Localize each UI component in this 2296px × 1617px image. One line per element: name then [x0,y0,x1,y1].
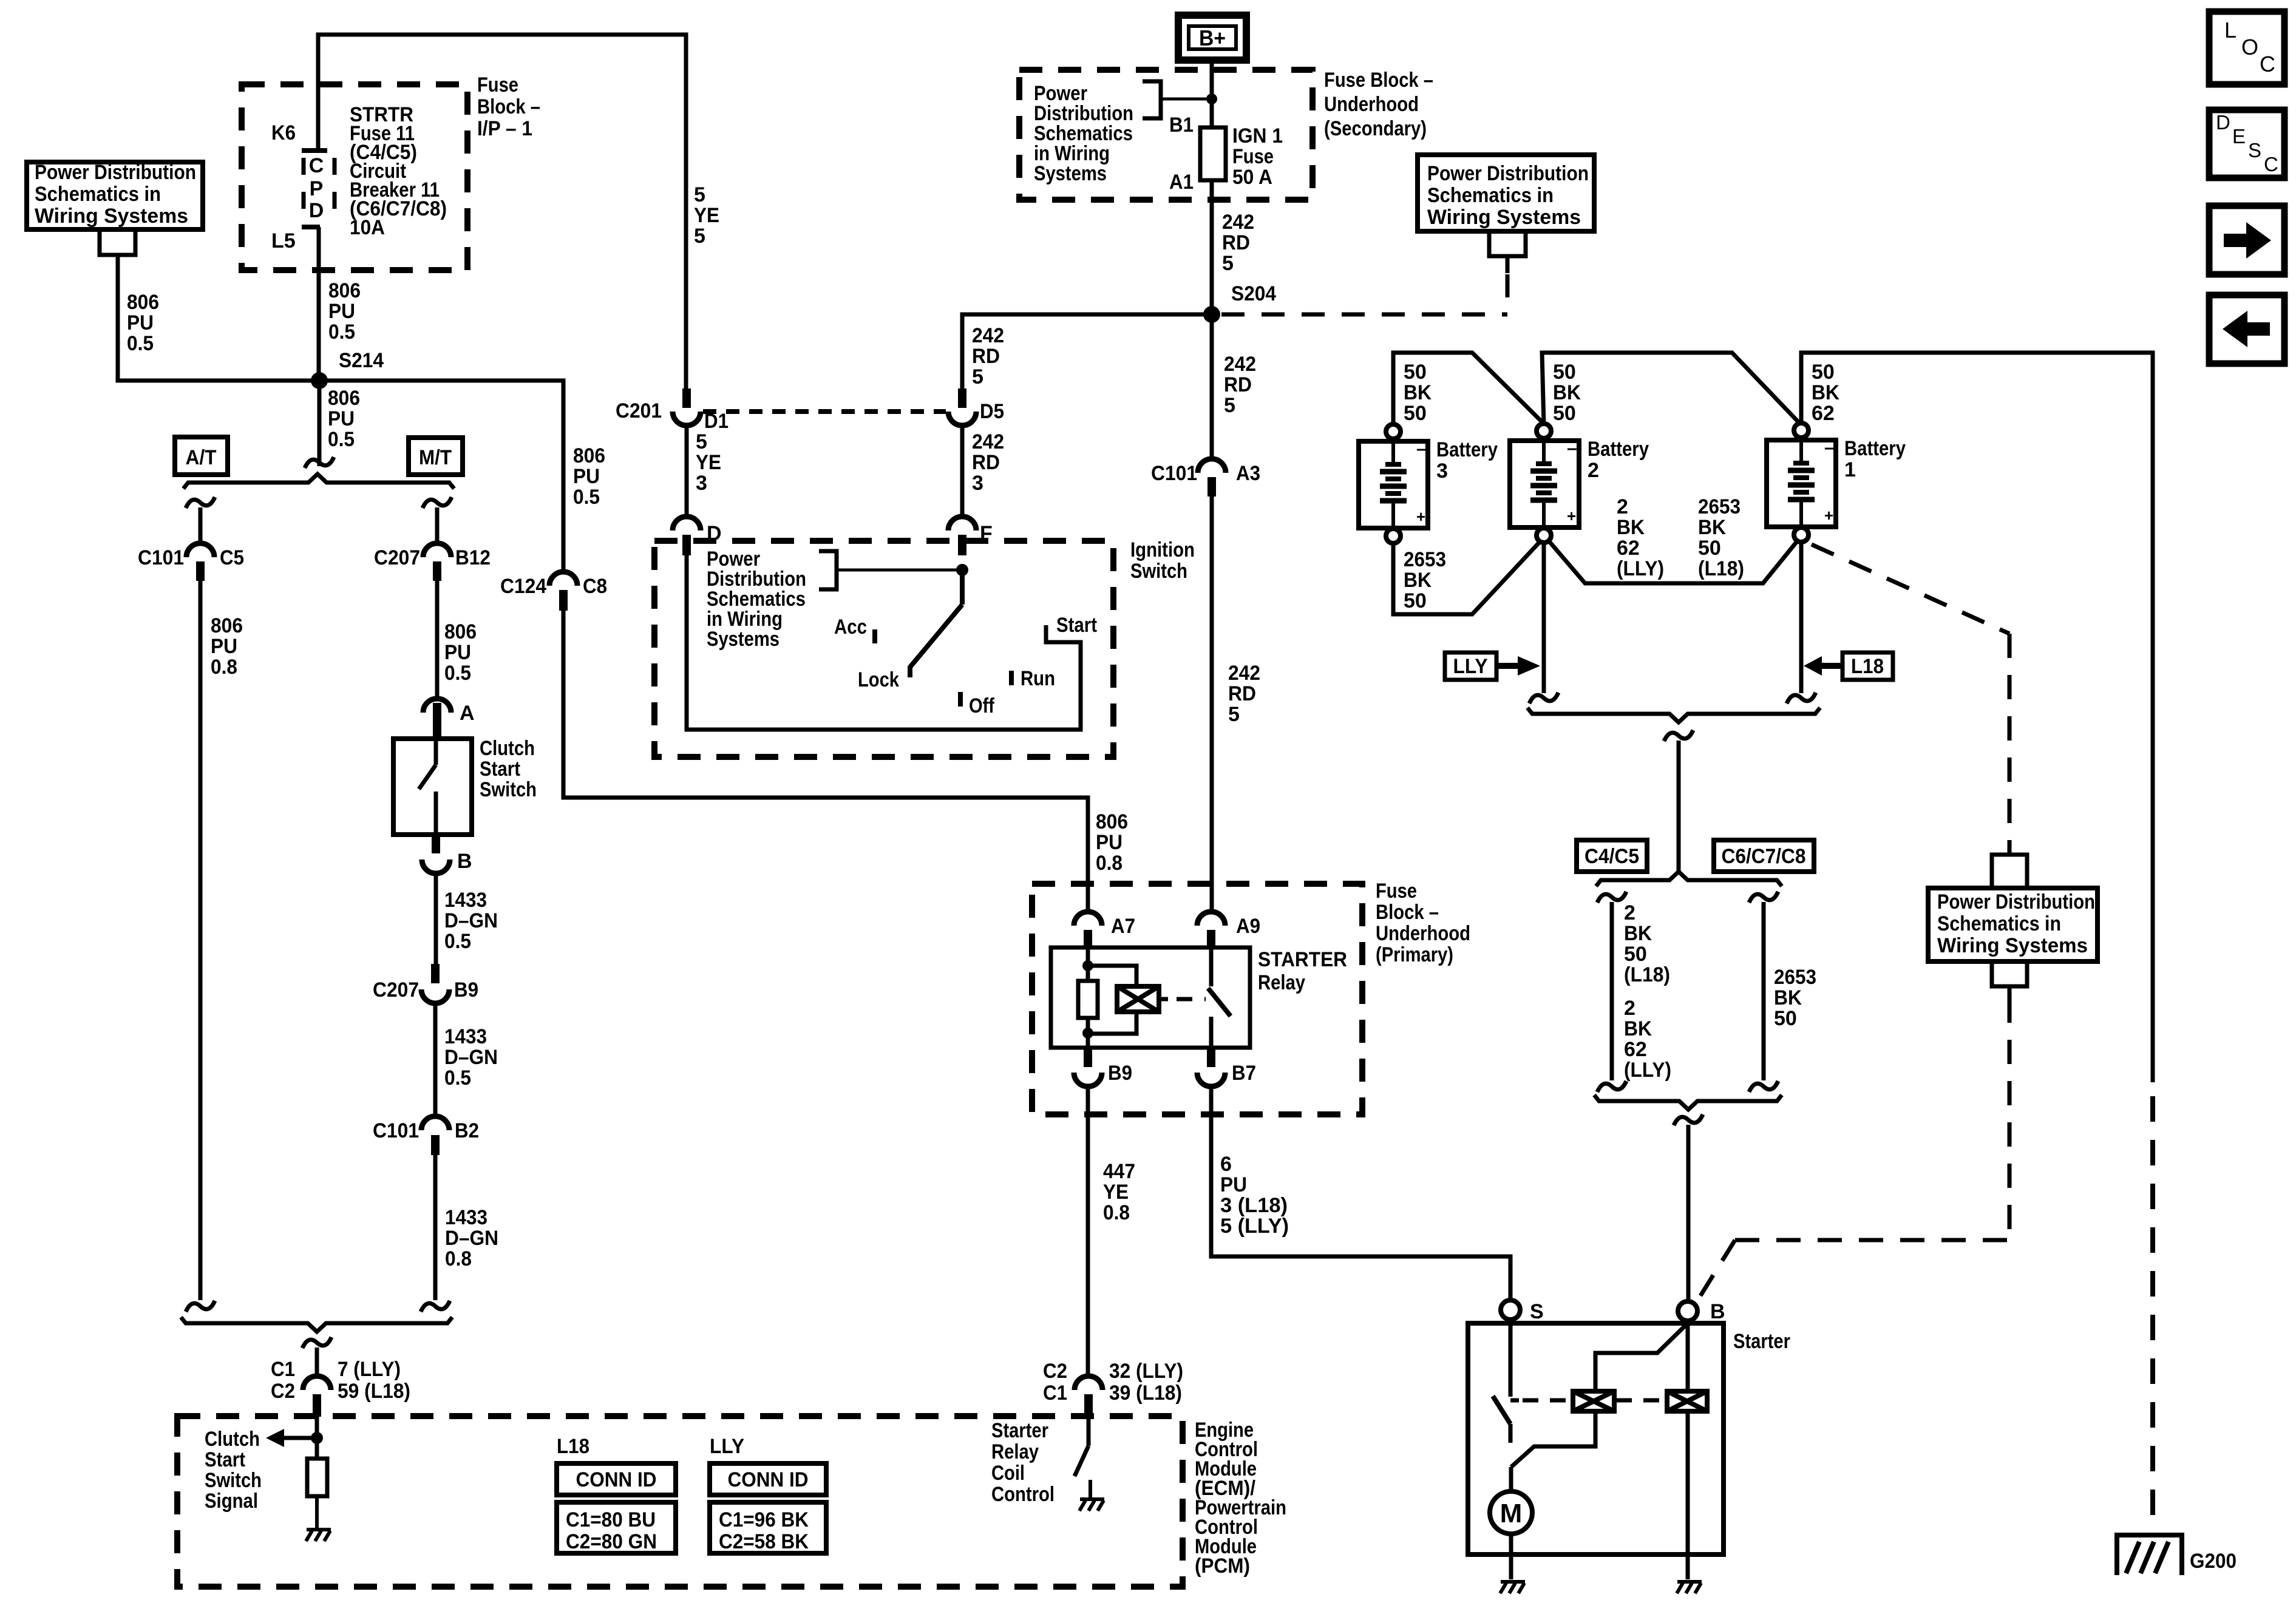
LOC icon box [2209,12,2284,84]
svg-text:Wiring Systems: Wiring Systems [35,205,188,228]
svg-text:2: 2 [1617,495,1628,518]
svg-text:C5: C5 [220,546,244,569]
contact Off [958,692,963,707]
svg-text:B1: B1 [1169,114,1194,137]
svg-text:Fuse: Fuse [477,73,518,97]
wire A3 to starter relay A9 [1210,497,1214,912]
svg-text:BK: BK [1774,986,1802,1009]
svg-text:Start: Start [480,758,520,781]
svg-text:+: + [1567,507,1576,525]
starter relay resistor [1078,981,1098,1018]
svg-text:P: P [310,177,324,200]
svg-text:YE: YE [1103,1181,1129,1204]
wire battery 2 positive to battery 1 [1549,541,1797,583]
wire brace to C4/C5 C6/C7/C8 brace [1664,730,1693,741]
battery 3 terminal bottom [1386,529,1401,543]
svg-text:Acc: Acc [834,615,867,639]
svg-text:B: B [1710,1300,1725,1323]
brace joining to starter B feed [1594,1095,1782,1110]
svg-text:Underhood: Underhood [1376,922,1470,945]
circuit breaker STRTR Fuse 11 [302,148,327,153]
svg-text:(PCM): (PCM) [1195,1554,1250,1578]
svg-text:Power Distribution: Power Distribution [35,161,196,184]
svg-text:B: B [457,850,472,873]
wire D1 to D [685,425,689,517]
connector B clutch start switch [432,835,440,853]
svg-text:LLY: LLY [1453,655,1488,678]
svg-text:CONN ID: CONN ID [728,1468,809,1491]
L18 tag box [1843,653,1893,680]
svg-text:806: 806 [573,444,605,467]
svg-text:B7: B7 [1232,1062,1256,1085]
svg-text:7 (LLY): 7 (LLY) [338,1358,401,1381]
svg-text:Battery: Battery [1436,438,1498,461]
svg-text:L: L [2224,18,2237,42]
svg-text:C2: C2 [271,1380,295,1403]
svg-text:LLY: LLY [710,1435,744,1458]
connector C1 C2 to ECM [303,1376,331,1390]
wire battery 2 positive to LLY node [1542,543,1546,693]
splice S204 [1203,306,1220,323]
arrow left icon box [2209,295,2284,364]
LLY arrow [1496,663,1518,669]
svg-text:Relay: Relay [991,1440,1039,1463]
battery 1 terminal bottom [1794,527,1809,542]
svg-text:B+: B+ [1199,25,1226,50]
svg-text:RD: RD [1224,373,1252,396]
ignition switch rotor [956,564,968,576]
svg-text:A1: A1 [1169,171,1194,194]
svg-text:BK: BK [1698,516,1726,539]
svg-text:3: 3 [696,472,707,495]
connector C201 D1 [682,388,691,408]
wire B to C207 B9 [434,873,438,964]
svg-text:+: + [1824,506,1833,524]
svg-text:BK: BK [1624,922,1652,945]
svg-text:D–GN: D–GN [445,1227,498,1250]
brace joining A/T and M/T branches at ECM input [181,1317,452,1332]
svg-text:806: 806 [328,387,360,410]
wire breaker to S214 [317,227,321,381]
wire battery 3 positive [1393,541,1540,614]
connector C101 A3 [1198,459,1226,473]
LLY CONN ID table [710,1463,826,1495]
svg-text:0.5: 0.5 [444,662,471,685]
svg-text:B12: B12 [455,546,491,569]
svg-text:3: 3 [1436,459,1448,483]
svg-text:50: 50 [1698,537,1721,560]
connector F ignition switch [948,517,976,531]
power distribution schematics box (top left) [27,162,203,229]
svg-text:–: – [1416,439,1427,459]
svg-text:Switch: Switch [1130,560,1187,583]
connector B7 [1207,1048,1215,1067]
svg-text:Clutch: Clutch [205,1428,260,1451]
starter relay coil circuit [1086,947,1090,981]
svg-text:M/T: M/T [419,446,452,469]
svg-text:50 A: 50 A [1232,166,1272,189]
svg-text:D: D [2216,111,2230,134]
svg-text:242: 242 [1228,662,1260,685]
starter solenoid dashes [1523,1398,1571,1403]
wire S204 left to ignition switch D5 [962,314,1212,391]
svg-text:C1=96 BK: C1=96 BK [719,1508,809,1531]
svg-text:Battery: Battery [1844,437,1906,460]
svg-text:O: O [2241,35,2258,59]
svg-text:S214: S214 [339,349,384,372]
svg-text:Schematics in: Schematics in [35,183,161,206]
svg-text:Off: Off [969,694,995,717]
svg-text:2: 2 [1624,901,1635,924]
svg-text:Coil: Coil [991,1462,1025,1485]
svg-text:Schematics in: Schematics in [1427,184,1554,207]
left branch wire 2 BK [1597,892,1626,903]
wire B7 to starter S [1211,1086,1510,1300]
svg-text:C1: C1 [1043,1381,1067,1405]
svg-text:2653: 2653 [1774,966,1816,989]
M/T box [409,438,463,475]
DESC icon box [2209,110,2284,178]
svg-text:S: S [2248,139,2261,161]
svg-text:1433: 1433 [445,1206,487,1229]
svg-text:C101: C101 [1151,462,1197,485]
svg-text:Systems: Systems [707,628,779,651]
svg-text:C6/C7/C8: C6/C7/C8 [1722,845,1806,868]
svg-text:B9: B9 [1108,1062,1132,1085]
svg-text:1433: 1433 [444,889,487,912]
connector C207 B12 [423,543,451,557]
svg-text:6: 6 [1220,1153,1232,1176]
svg-text:242: 242 [972,430,1004,453]
svg-text:50: 50 [1624,943,1647,966]
wire IGN1 fuse to S204 [1210,180,1214,314]
svg-text:0.5: 0.5 [444,1066,471,1090]
dashed wire PD box to starter B [2008,998,2012,1240]
svg-text:C: C [2260,52,2275,76]
svg-text:5 (LLY): 5 (LLY) [1220,1215,1289,1238]
svg-text:BK: BK [1553,381,1581,404]
connector B9 [1084,1048,1092,1067]
A/T box [175,437,228,475]
svg-text:806: 806 [444,620,477,643]
wire B+ to IGN1 fuse [1210,60,1214,127]
svg-text:BK: BK [1404,569,1432,592]
svg-text:K6: K6 [271,121,296,144]
svg-text:C: C [2264,153,2278,175]
svg-text:Switch: Switch [480,778,537,801]
svg-text:C: C [309,154,324,177]
LLY tag box [1445,653,1496,680]
svg-text:D–GN: D–GN [444,909,498,932]
svg-text:5: 5 [694,225,705,248]
starter solenoid coil 1 [1573,1391,1614,1411]
svg-text:Power Distribution: Power Distribution [1427,162,1589,185]
connector C201 D5 [958,388,966,408]
contact Run [1009,671,1014,685]
svg-text:59 (L18): 59 (L18) [338,1380,410,1403]
svg-text:C101: C101 [373,1119,419,1142]
wire S214 right to C124 branch corner [319,381,563,572]
svg-text:–: – [1567,438,1577,458]
starter relay coil [1088,966,1136,986]
starter switch linkage [1511,1412,1595,1467]
clutch start switch contacts [434,739,438,765]
svg-text:B2: B2 [455,1119,479,1142]
svg-text:L18: L18 [557,1435,589,1458]
svg-text:1433: 1433 [444,1025,487,1048]
svg-text:62: 62 [1617,537,1640,560]
svg-text:Signal: Signal [205,1490,258,1513]
svg-text:62: 62 [1812,402,1835,425]
svg-text:PU: PU [127,311,154,334]
svg-text:YE: YE [694,204,719,227]
svg-text:D: D [309,199,324,222]
C6/C7/C8 tag box [1714,840,1814,872]
wire brace to starter B terminal [1674,1114,1703,1125]
svg-text:A/T: A/T [186,446,217,469]
connector A clutch start switch [423,699,451,713]
connector C201 dashed body [703,409,946,414]
svg-text:Starter: Starter [1733,1330,1790,1353]
B+ terminal [1178,15,1246,60]
svg-text:YE: YE [696,451,721,474]
svg-text:Block –: Block – [1376,901,1439,924]
brace joining LLY and L18 battery feeds [1527,708,1820,722]
L18 arrow [1822,663,1843,669]
brace splitting to A/T and M/T branches [183,474,454,489]
svg-text:RD: RD [972,345,1000,368]
wire PD box to S214 [118,267,319,381]
brace splitting to C4/C5 and C6/C7/C8 [1596,872,1782,886]
battery 2 terminal top [1537,424,1551,438]
svg-text:242: 242 [1224,353,1256,376]
wire C8 to starter relay A7 [563,611,1088,912]
svg-text:5: 5 [1224,394,1235,417]
svg-text:447: 447 [1103,1160,1135,1183]
svg-text:BK: BK [1624,1017,1652,1040]
svg-text:BK: BK [1404,381,1432,404]
wire battery 1 top feed [1801,353,2153,1082]
ground starter B [1677,1582,1702,1593]
svg-text:C4/C5: C4/C5 [1584,845,1639,868]
svg-text:0.5: 0.5 [444,930,471,953]
ignition switch output wire to start contact [687,555,1081,730]
svg-text:5: 5 [972,365,983,388]
connector C101 B2 [421,1116,449,1130]
svg-text:Ignition: Ignition [1130,538,1195,561]
svg-text:3: 3 [972,472,983,495]
connector A9 [1197,912,1225,926]
svg-text:0.8: 0.8 [1103,1201,1130,1224]
wire S214 down to A/T M/T brace [318,381,322,466]
bracket in ignition switch [819,551,837,589]
svg-text:STARTER: STARTER [1258,948,1347,971]
starter box [1468,1323,1724,1554]
contact Acc [872,629,877,643]
right branch wire 2653 BK 50 [1749,892,1778,903]
svg-text:50: 50 [1404,402,1427,425]
svg-text:Fuse: Fuse [1232,145,1274,168]
svg-text:PU: PU [444,641,471,664]
svg-text:Schematics in: Schematics in [1937,912,2061,935]
svg-text:PU: PU [1096,831,1123,854]
svg-text:0.8: 0.8 [445,1247,472,1270]
svg-text:2653: 2653 [1404,548,1446,571]
splice S214 [311,372,328,389]
svg-text:5: 5 [694,183,705,206]
arrow right icon box [2209,206,2284,274]
starter terminal S [1501,1300,1520,1320]
starter solenoid switch [1509,1320,1513,1397]
svg-text:BK: BK [1812,381,1839,404]
svg-text:C2: C2 [1043,1360,1067,1383]
fuse block underhood secondary dashed box [1019,70,1313,200]
svg-text:A9: A9 [1236,915,1260,938]
C4/C5 tag box [1577,840,1647,872]
svg-text:G200: G200 [2190,1550,2237,1573]
svg-text:806: 806 [127,291,159,314]
battery 2 terminal bottom [1537,528,1551,543]
clutch start switch signal node [315,1417,319,1459]
svg-text:C101: C101 [138,546,184,569]
svg-text:5: 5 [696,430,707,453]
bracket below PD box [100,229,135,255]
L18 CONN ID table [557,1463,676,1495]
svg-text:Clutch: Clutch [480,737,535,760]
svg-text:RD: RD [972,451,1000,474]
svg-text:C1: C1 [271,1358,295,1381]
bracket below PD box right [1489,231,1526,256]
wire resistor to ground [315,1496,319,1530]
bracket to power distribution schematics [1143,81,1161,118]
svg-text:50: 50 [1553,361,1576,384]
wire S204 down to C101 A3 [1210,314,1214,459]
bracket above PD box right lower [2008,844,2012,855]
svg-text:50: 50 [1404,361,1427,384]
connector C207 B9 [431,964,440,983]
power distribution schematics box (top right) [1418,155,1594,231]
svg-text:C124: C124 [500,575,546,598]
battery 2 [1510,441,1579,527]
starter relay box [1051,947,1250,1048]
svg-text:A3: A3 [1236,462,1260,485]
wire B9 to C101 B2 [433,1003,438,1116]
svg-text:I/P – 1: I/P – 1 [477,117,532,140]
starter B to ground [1686,1411,1690,1579]
clutch start switch box [393,739,472,835]
svg-text:Block –: Block – [477,95,540,118]
svg-text:Run: Run [1021,667,1055,690]
wire A/T branch down [199,581,203,1300]
A/T branch wire to C101 C5 [186,497,215,508]
svg-text:Underhood: Underhood [1324,93,1419,116]
battery 1 terminal top [1794,423,1809,438]
svg-text:2: 2 [1588,459,1599,482]
svg-text:10A: 10A [350,216,385,239]
resistor in ECM [307,1459,327,1496]
svg-text:B9: B9 [454,978,478,1002]
svg-text:39 (L18): 39 (L18) [1109,1381,1182,1405]
bracket below PD box right lower [1992,961,2027,986]
svg-text:S: S [1530,1300,1544,1323]
wire B2 down to bottom brace [433,1155,438,1300]
svg-text:242: 242 [972,324,1004,347]
svg-text:Power Distribution: Power Distribution [1937,890,2095,914]
svg-text:M: M [1500,1499,1523,1528]
connector A7 [1074,912,1102,926]
svg-text:(Primary): (Primary) [1376,943,1453,966]
svg-text:Fuse Block –: Fuse Block – [1324,69,1433,92]
ECM PCM dashed box [177,1416,1183,1587]
svg-text:0.5: 0.5 [328,428,355,451]
ground starter relay coil control [1079,1499,1104,1511]
svg-text:50: 50 [1774,1007,1797,1030]
svg-text:C2=80 GN: C2=80 GN [566,1530,657,1553]
ground starter motor [1500,1582,1525,1593]
svg-text:A7: A7 [1111,915,1135,938]
svg-text:Control: Control [991,1483,1055,1506]
svg-text:806: 806 [211,614,243,637]
wire battery 2 top feed [1542,353,1800,425]
svg-text:2: 2 [1624,997,1635,1020]
svg-text:Switch: Switch [205,1469,262,1492]
wire brace to C1 C2 connector [302,1337,331,1348]
svg-text:L18: L18 [1851,655,1884,678]
starter B internal feed [1686,1321,1690,1391]
svg-text:1: 1 [1844,458,1856,481]
svg-text:PU: PU [211,635,237,658]
fuse block underhood primary dashed box [1032,884,1362,1114]
svg-text:Starter: Starter [991,1419,1048,1442]
svg-text:A: A [460,702,475,725]
dashed ground wire to G200 [2150,1096,2155,1532]
dashed link S204 to power distribution [1221,313,1507,317]
battery 3 terminal top [1386,424,1401,439]
svg-text:3 (L18): 3 (L18) [1220,1194,1288,1217]
ground ECM clutch signal [306,1530,331,1541]
power distribution schematics box (right) [1928,888,2097,961]
svg-text:50: 50 [1404,589,1427,612]
svg-text:0.8: 0.8 [211,656,237,679]
battery 3 [1359,441,1428,528]
svg-text:806: 806 [328,279,361,302]
svg-text:50: 50 [1553,402,1576,425]
ignition switch dashed box [654,541,1113,757]
svg-text:PU: PU [328,300,355,323]
svg-text:(LLY): (LLY) [1617,557,1664,580]
wire B9 to ECM C2 C1 [1086,1086,1090,1376]
svg-text:(L18): (L18) [1624,963,1670,986]
svg-text:PU: PU [573,465,600,488]
M/T branch wire to C207 B12 [423,497,452,508]
starter solenoid coil 2 [1667,1391,1707,1411]
svg-text:5: 5 [1222,252,1234,275]
battery 1 [1767,440,1836,527]
svg-text:(Secondary): (Secondary) [1324,117,1427,140]
svg-text:C2=58 BK: C2=58 BK [719,1530,809,1553]
svg-text:C207: C207 [373,978,419,1002]
starter terminal B [1678,1301,1697,1321]
svg-text:Lock: Lock [858,668,899,691]
connector D ignition switch [673,517,701,531]
svg-text:5: 5 [1228,703,1240,726]
svg-text:C1=80 BU: C1=80 BU [566,1508,656,1531]
svg-text:C207: C207 [374,546,420,569]
svg-text:PU: PU [328,407,355,430]
svg-text:BK: BK [1617,516,1645,539]
svg-text:Relay: Relay [1258,971,1305,994]
svg-text:0.5: 0.5 [573,486,600,509]
